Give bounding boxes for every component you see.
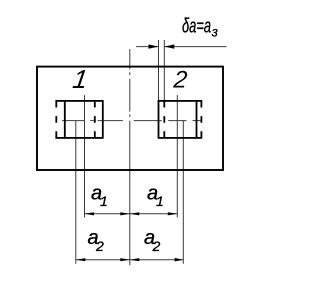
hole 2 dashed position left edge	[163, 101, 165, 138]
centerline horizontal (holes axis)	[62, 120, 200, 122]
dimension line a1 row	[85, 213, 178, 215]
svg-text:2: 2	[95, 238, 104, 254]
dimension line delta-a right tail with arrow	[164, 46, 226, 48]
hole 2 solid axis extension line	[176, 95, 178, 217]
hole 1 dashed position left edge	[55, 101, 57, 138]
hole 2 top/bottom edge extensions to dashed position	[197, 100, 203, 102]
dimension line delta-a left tail with arrow	[136, 46, 158, 48]
svg-text:3: 3	[212, 28, 219, 40]
hole 2 square (solid position)	[159, 101, 197, 138]
hole 1 square (solid position)	[65, 101, 103, 138]
hole 2 dashed-position axis extension line	[182, 121, 184, 264]
delta-a extension line left	[158, 40, 160, 101]
centerline vertical (axis of symmetry)	[129, 49, 131, 265]
hole 1 dashed-position axis extension line	[75, 121, 77, 264]
svg-text:δa=a: δa=a	[182, 16, 211, 38]
svg-text:1: 1	[156, 193, 164, 209]
svg-text:2: 2	[152, 238, 161, 254]
dimension line a2 row	[76, 259, 184, 261]
hole 1 top/bottom edge extensions to dashed position	[55, 100, 64, 102]
svg-text:1: 1	[100, 193, 108, 209]
hole 2 dashed position right edge	[200, 101, 202, 138]
hole 1 dashed position right edge	[94, 101, 96, 138]
hole 1 solid axis extension line	[84, 95, 86, 217]
plate outline	[37, 67, 223, 170]
delta-a extension line right	[163, 40, 165, 101]
